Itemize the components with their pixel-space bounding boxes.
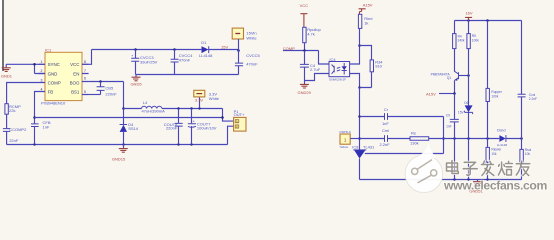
svg-text:220nF: 220nF <box>105 92 117 97</box>
net label A15V wire <box>426 92 456 97</box>
svg-text:Q1: Q1 <box>447 76 451 80</box>
diode D4 <box>120 109 139 145</box>
svg-text:CVCC5: CVCC5 <box>246 53 260 58</box>
svg-text:White: White <box>246 36 257 41</box>
wire BOO pin to SW node <box>89 80 124 83</box>
resistor R34 <box>360 60 384 88</box>
resistor Rpullup <box>303 27 322 50</box>
svg-text:SYNC: SYNC <box>48 62 60 67</box>
svg-text:16V: 16V <box>465 11 472 16</box>
wire top right rail <box>455 19 522 22</box>
wire compensation rail upper <box>360 116 444 118</box>
resistor Rupper <box>486 21 503 148</box>
wire SW vertical <box>122 82 125 110</box>
svg-text:100k: 100k <box>491 95 498 99</box>
op IC U1 body <box>41 47 82 105</box>
wire output rail <box>124 107 223 109</box>
svg-text:Cr: Cr <box>384 107 389 112</box>
svg-text:22nF: 22nF <box>9 138 19 143</box>
wire COMP to opto anode <box>319 51 330 65</box>
svg-text:FB: FB <box>48 90 54 95</box>
ground GND5 <box>130 75 142 87</box>
svg-text:Yellow: Yellow <box>339 145 349 149</box>
ground GND51 <box>469 180 483 194</box>
svg-text:2: 2 <box>41 69 43 73</box>
svg-text:GNMC06-2F: GNMC06-2F <box>329 77 346 81</box>
svg-text:15V: 15V <box>458 111 465 115</box>
diode D1 <box>199 40 213 58</box>
svg-text:10k: 10k <box>491 152 497 156</box>
watermark glyph dian <box>447 161 459 174</box>
svg-text:Rs: Rs <box>411 130 416 135</box>
svg-text:LL4148: LL4148 <box>497 143 508 147</box>
capacitor Cr <box>382 107 389 126</box>
svg-text:240k: 240k <box>458 38 465 42</box>
svg-text:IC4: IC4 <box>329 57 336 62</box>
svg-text:GND29: GND29 <box>298 90 312 95</box>
pin stubs and numbers IC1 <box>39 60 89 95</box>
power VCC <box>300 3 309 27</box>
wire top VCC rail <box>92 48 240 52</box>
wire feedback vertical <box>358 88 361 150</box>
capacitor CVCC5 <box>235 51 261 75</box>
svg-text:100k: 100k <box>472 38 479 42</box>
ground GND29 <box>298 84 312 95</box>
capacitor Cvol <box>518 21 537 150</box>
svg-text:GND15: GND15 <box>112 157 126 162</box>
resistor R4 <box>453 21 465 72</box>
capacitor CCOMP <box>3 127 27 143</box>
svg-text:Dmd: Dmd <box>497 128 505 133</box>
svg-text:1nF: 1nF <box>446 124 452 128</box>
capacitor Cml <box>379 128 390 147</box>
resistor Rs 130k <box>410 130 429 145</box>
optocoupler IC4 <box>329 57 350 81</box>
wire link vertical <box>442 117 445 154</box>
svg-text:SS14: SS14 <box>128 126 139 131</box>
svg-text:IC1: IC1 <box>45 47 52 52</box>
power 16V <box>465 11 473 21</box>
resistor R5 <box>467 21 479 106</box>
svg-text:7: 7 <box>84 69 86 73</box>
svg-text:D1: D1 <box>201 40 207 45</box>
port OSPD-K <box>339 130 359 149</box>
capacitor CFB <box>31 120 51 129</box>
wire VCC pin up to top rail <box>82 50 92 65</box>
wire bottom ground rail left section <box>7 143 228 145</box>
svg-text:L4: L4 <box>143 100 148 105</box>
svg-text:470nF: 470nF <box>179 57 191 62</box>
port 3.3V <box>194 90 220 108</box>
capacitor COUT7 <box>188 109 217 145</box>
capacitor CB5 <box>97 82 118 97</box>
svg-text:GND5: GND5 <box>130 82 142 87</box>
svg-text:1nF: 1nF <box>382 121 389 126</box>
svg-text:A15V: A15V <box>426 92 436 97</box>
wire bottom ground rail right <box>360 179 522 181</box>
wire COMP net <box>283 49 319 52</box>
svg-text:10k: 10k <box>525 152 531 156</box>
svg-text:220nF: 220nF <box>166 125 178 130</box>
svg-text:1k: 1k <box>364 20 368 25</box>
capacitor C9 <box>446 94 459 180</box>
wire COMP pin to RCMP <box>7 83 39 104</box>
svg-text:910: 910 <box>375 64 382 69</box>
svg-text:IC8: IC8 <box>352 144 359 149</box>
zener diode D6 <box>458 101 473 179</box>
shunt regulator IC8 TL431 <box>352 144 443 179</box>
svg-text:5: 5 <box>84 90 86 94</box>
svg-text:C9: C9 <box>446 114 450 118</box>
wire BS1 pin to CB5 <box>89 94 101 96</box>
wire CCOMP to bottom rail <box>6 131 8 144</box>
ground GND1 <box>1 64 13 78</box>
svg-text:www.elecfans.com: www.elecfans.com <box>443 179 548 193</box>
wire mid ground rail <box>136 74 239 76</box>
svg-text:BOO: BOO <box>70 81 80 86</box>
wire opto emitter down <box>350 74 361 89</box>
svg-text:1nF: 1nF <box>43 124 50 129</box>
svg-text:GND: GND <box>48 71 58 76</box>
wire FB pin down <box>33 92 38 124</box>
diode Dmd <box>497 128 508 147</box>
svg-text:PX8948EN10: PX8948EN10 <box>41 101 66 106</box>
svg-text:Cml: Cml <box>382 128 389 133</box>
svg-text:CB5: CB5 <box>105 85 114 90</box>
pin names IC1 <box>48 62 80 94</box>
svg-text:A15V: A15V <box>363 2 373 7</box>
watermark glyph zi <box>463 162 477 175</box>
wire opto collector up <box>350 44 361 64</box>
svg-text:8: 8 <box>84 60 86 64</box>
wire compensation rail lower <box>360 137 523 140</box>
resistor Rsol <box>520 148 532 180</box>
sheet border fragment top-left <box>0 0 2 71</box>
capacitor CVCC3 <box>131 50 158 75</box>
svg-text:100uF/10V: 100uF/10V <box>197 126 217 131</box>
resistor Rlower <box>486 147 502 179</box>
resistor RCMP <box>5 104 21 115</box>
wire opto cathode to ground <box>305 74 330 81</box>
transistor Q1 PMBTA94 <box>431 71 470 93</box>
inductor L4 <box>142 100 166 114</box>
svg-text:15V: 15V <box>221 45 228 50</box>
svg-text:COMP: COMP <box>48 81 61 86</box>
svg-text:22k: 22k <box>9 108 15 113</box>
svg-text:39uF/25V: 39uF/25V <box>140 59 158 64</box>
svg-text:1: 1 <box>41 60 43 64</box>
svg-text:2.2nF: 2.2nF <box>379 142 390 147</box>
svg-text:4.7k: 4.7k <box>307 31 315 36</box>
svg-text:D6: D6 <box>464 101 468 105</box>
watermark glyph shao <box>498 161 512 175</box>
capacitor C4 <box>300 51 321 85</box>
watermark glyph you <box>516 161 530 176</box>
connector P1 <box>221 109 246 145</box>
watermark glyph fa <box>481 161 494 176</box>
svg-text:LL4148: LL4148 <box>199 53 213 58</box>
watermark text elecfans <box>443 179 548 193</box>
wire SYNC/GND to GND1 <box>6 63 45 73</box>
svg-text:3: 3 <box>41 78 43 82</box>
ground GND15 <box>112 145 128 162</box>
capacitor COUT8 <box>164 109 183 145</box>
svg-text:GND1: GND1 <box>1 74 13 79</box>
capacitor CVCC4 <box>171 50 194 75</box>
wire RCMP to CCOMP <box>6 114 8 128</box>
power A15V <box>359 2 373 14</box>
svg-text:47uH/390mA: 47uH/390mA <box>142 109 166 114</box>
svg-text:2.2nF: 2.2nF <box>529 97 537 101</box>
svg-text:VCC: VCC <box>70 62 79 67</box>
svg-text:4: 4 <box>41 88 43 92</box>
svg-text:CCOMP2: CCOMP2 <box>9 127 27 132</box>
wire CFB to bottom rail <box>34 127 36 145</box>
svg-text:3.3V: 3.3V <box>195 97 204 102</box>
wire FB sense line to output <box>35 117 223 119</box>
svg-text:EN: EN <box>73 71 79 76</box>
svg-text:White: White <box>209 96 220 101</box>
watermark logo <box>405 143 443 193</box>
svg-text:6: 6 <box>84 77 86 81</box>
port 15Vin <box>232 28 257 50</box>
svg-text:TL431: TL431 <box>363 144 375 149</box>
svg-text:OUT+: OUT+ <box>234 112 245 117</box>
svg-text:130k: 130k <box>410 141 419 146</box>
svg-text:VCC: VCC <box>300 3 309 8</box>
svg-text:OSPD-K: OSPD-K <box>339 130 352 134</box>
svg-text:2.7uF: 2.7uF <box>310 67 321 72</box>
svg-text:BS1: BS1 <box>71 90 80 95</box>
resistor Rled <box>358 14 372 60</box>
svg-text:470nF: 470nF <box>246 61 258 66</box>
